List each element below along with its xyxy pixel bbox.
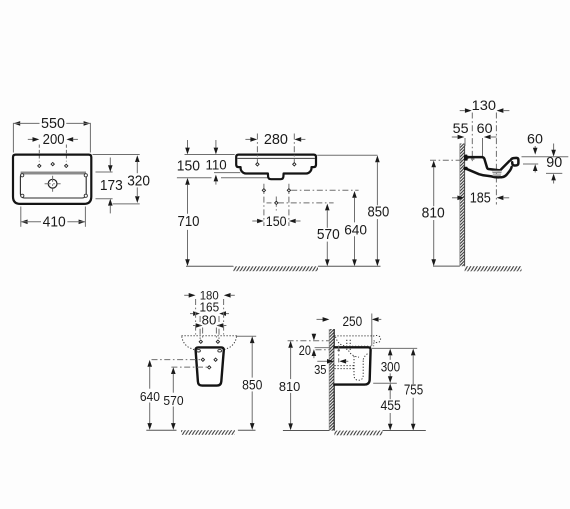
svg-text:130: 130: [472, 98, 497, 114]
svg-text:150: 150: [266, 214, 287, 229]
svg-text:173: 173: [100, 178, 123, 194]
svg-text:185: 185: [470, 190, 491, 206]
svg-text:35: 35: [314, 363, 326, 377]
svg-text:110: 110: [206, 157, 227, 173]
svg-text:60: 60: [527, 131, 543, 147]
svg-text:410: 410: [43, 214, 66, 230]
svg-text:150: 150: [177, 159, 200, 175]
svg-text:80: 80: [202, 313, 217, 327]
svg-text:640: 640: [140, 389, 160, 404]
svg-text:755: 755: [404, 383, 423, 399]
svg-text:550: 550: [41, 116, 65, 132]
svg-text:850: 850: [242, 378, 263, 393]
svg-text:455: 455: [380, 398, 400, 414]
svg-text:200: 200: [43, 132, 65, 148]
svg-text:810: 810: [279, 379, 300, 394]
svg-text:710: 710: [178, 214, 200, 230]
svg-text:570: 570: [317, 227, 340, 243]
svg-text:55: 55: [453, 121, 469, 137]
svg-text:320: 320: [127, 173, 150, 189]
svg-text:300: 300: [381, 359, 401, 375]
svg-text:60: 60: [477, 121, 493, 137]
svg-text:570: 570: [163, 393, 183, 408]
svg-text:250: 250: [342, 313, 362, 329]
svg-text:640: 640: [344, 222, 367, 238]
svg-text:850: 850: [368, 205, 390, 221]
svg-text:280: 280: [264, 132, 288, 148]
svg-text:810: 810: [422, 205, 445, 222]
svg-text:20: 20: [299, 342, 311, 358]
svg-text:90: 90: [546, 155, 562, 171]
